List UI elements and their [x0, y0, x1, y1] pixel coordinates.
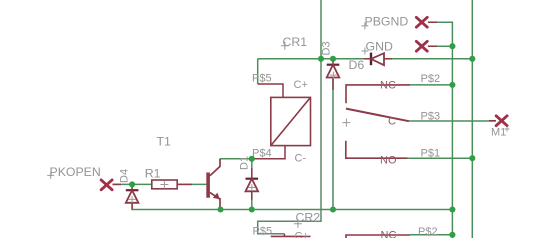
label P$4 [252, 148, 272, 160]
label P$3 [421, 110, 441, 122]
diode D3 [327, 59, 340, 90]
relay CR1 coil box [271, 97, 311, 145]
wire P$2 to bus1 [410, 84, 452, 86]
wire CR2 NC to bus1 [410, 234, 452, 236]
junction emitter/bottom [217, 206, 223, 212]
pin C- of CR1 (P$4) [252, 146, 285, 159]
origin cross CR2 [294, 220, 302, 228]
origin cross D3 [330, 72, 337, 79]
wire P$1 to bus2 [408, 157, 473, 159]
diode D4 [126, 184, 139, 209]
junction D3 bottom [330, 206, 336, 212]
wire vertical right bus 1 [429, 22, 453, 238]
svg-text:PKOPEN: PKOPEN [50, 165, 101, 179]
svg-text:P$5: P$5 [252, 73, 272, 85]
label D6 [349, 58, 365, 72]
svg-text:M1: M1 [491, 126, 506, 138]
junction P$1/bus2 [469, 155, 475, 161]
resistor R1 [152, 180, 177, 189]
svg-text:C-: C- [295, 153, 307, 165]
wire PKOPEN to base row [119, 183, 207, 185]
wire D3 anode down [332, 78, 334, 210]
pin C+ of CR1 (P$5) [258, 84, 283, 97]
origin cross PKOPEN [47, 172, 54, 179]
label M1 [491, 126, 510, 138]
label P$2 (CR2) [418, 226, 438, 238]
pin M1 flag [489, 116, 507, 126]
svg-text:NC: NC [380, 80, 396, 92]
svg-text:C: C [388, 116, 396, 128]
junction D3 top [330, 56, 336, 62]
wire vertical right bus 2 [471, 0, 473, 238]
junction D1 bottom [249, 206, 255, 212]
svg-text:T1: T1 [157, 135, 172, 149]
label P$5 (CR2) [253, 226, 273, 238]
svg-text:CR1: CR1 [283, 35, 308, 49]
label C+ (CR2) [295, 231, 309, 240]
label C+ [294, 79, 308, 91]
label PKOPEN [50, 165, 101, 179]
supply flag PBGND [416, 17, 437, 27]
label T1 [157, 135, 172, 149]
svg-text:P$4: P$4 [252, 148, 272, 160]
junction bottom/bus1 [449, 206, 455, 212]
svg-text:D6: D6 [349, 58, 365, 72]
svg-text:GND: GND [366, 40, 393, 54]
origin cross CR1 [281, 42, 289, 50]
origin cross contact CR1 [342, 119, 350, 127]
pin stub R1 right / T1 base [177, 183, 192, 185]
svg-text:D4: D4 [119, 169, 131, 183]
svg-text:PBGND: PBGND [365, 14, 409, 28]
svg-text:C+: C+ [295, 231, 309, 239]
label C [388, 116, 396, 128]
origin cross D1 [248, 184, 255, 191]
junction collector/D1 [249, 156, 255, 162]
junction GND/bus1 [449, 43, 455, 49]
label GND [366, 40, 393, 54]
diode D6 [364, 53, 392, 66]
svg-text:D3: D3 [321, 41, 333, 55]
svg-text:P$2: P$2 [421, 73, 441, 85]
svg-text:NO: NO [380, 155, 397, 167]
wire bottom emitter net [132, 184, 452, 209]
svg-text:R1: R1 [145, 167, 161, 181]
svg-text:P$5: P$5 [253, 226, 273, 238]
relay CR1 contact NO (P$1) [346, 141, 408, 158]
svg-text:C+: C+ [294, 79, 308, 91]
label NC (CR2) [381, 230, 397, 240]
wire D1 branch vertical [251, 159, 253, 210]
label D4 (rotated) [119, 169, 131, 183]
label D1 (rotated) [238, 156, 250, 170]
svg-text:CR2: CR2 [296, 211, 321, 225]
relay CR1 contact common blade (P$3) [346, 109, 409, 122]
label P$1 [421, 148, 441, 160]
wire long route to CR2 coil C+ [258, 59, 321, 234]
svg-text:NC: NC [381, 230, 397, 238]
svg-text:P$3: P$3 [421, 110, 441, 122]
relay CR2 coil box top [271, 234, 311, 237]
origin cross R1 [160, 181, 168, 189]
origin cross D4 [129, 196, 136, 203]
label P$2 [421, 73, 441, 85]
junction main/bus2 [469, 56, 475, 62]
wire vertical from top edge to main node [320, 0, 322, 59]
pin stub PKOPEN [113, 183, 119, 185]
relay CR2 label [296, 211, 321, 225]
wire main horizontal net [258, 58, 473, 60]
svg-text:P$1: P$1 [421, 148, 441, 160]
wire CR1 coil C+ branch [257, 59, 259, 84]
origin cross GND [361, 48, 368, 55]
wire GND stub [429, 45, 453, 47]
junction D4 top [129, 181, 135, 187]
junction P$2/bus1 [449, 82, 455, 88]
label R1 [145, 167, 161, 181]
label NC [380, 80, 396, 92]
relay CR2 contact NC [346, 235, 410, 238]
junction main/vertical [318, 56, 324, 62]
transistor T1 [206, 159, 220, 210]
wire collector net [220, 158, 252, 160]
origin cross PBGND [361, 22, 368, 29]
label CR1 [283, 35, 308, 49]
label D3 (rotated) [321, 41, 333, 55]
net flag PKOPEN [101, 180, 121, 190]
label NO [380, 155, 397, 167]
supply flag GND [416, 41, 437, 51]
junction CR2 NC/bus1 [449, 232, 455, 238]
label P$5 [252, 73, 272, 85]
wire P$3 to M1 [409, 120, 496, 122]
svg-text:D1: D1 [238, 156, 250, 170]
label PBGND [365, 14, 409, 28]
label C- [295, 153, 307, 165]
svg-text:P$2: P$2 [418, 226, 438, 238]
relay CR1 contact NC (P$2) [346, 85, 410, 103]
diode D1 [246, 168, 259, 200]
